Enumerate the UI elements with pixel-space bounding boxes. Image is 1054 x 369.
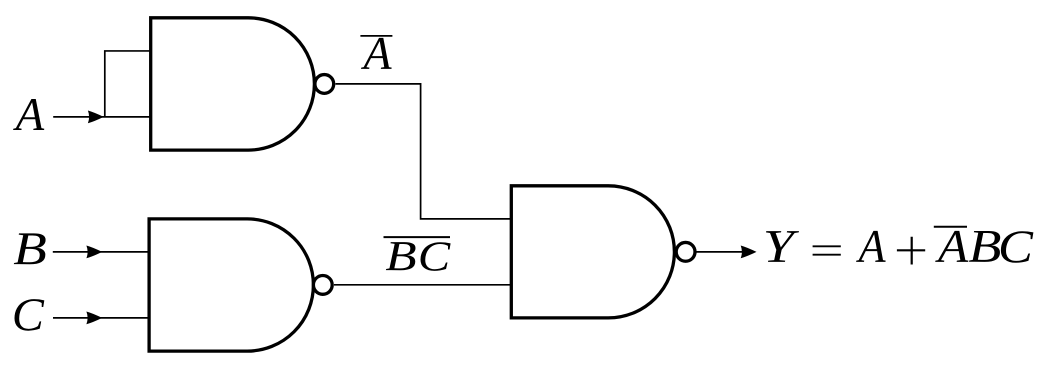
plus sign — [897, 237, 925, 265]
NAND gate U2 (bottom left) — [149, 219, 313, 351]
NAND gate U3 (output) — [511, 186, 674, 318]
arrowhead on B input — [86, 246, 102, 259]
overline of BCbar node — [384, 236, 451, 238]
label B (input) — [14, 233, 46, 264]
overline of Abar in expression — [934, 226, 967, 228]
label Y (output expression) — [766, 231, 799, 262]
wire U1 output to U3 upper input — [336, 84, 512, 219]
label C in expression — [1001, 231, 1033, 263]
NAND gate U1 (inverter, top) — [151, 18, 315, 150]
wire C input — [53, 317, 149, 319]
bubble U2 — [313, 276, 332, 295]
wire A input — [53, 116, 151, 118]
arrowhead on A input — [88, 110, 104, 123]
node BCbar letter B — [386, 242, 416, 270]
arrowhead on C input — [86, 312, 102, 325]
wire Y output — [697, 251, 752, 253]
label A (input) — [13, 99, 44, 130]
arrowhead on Y output — [741, 245, 757, 258]
equals sign — [813, 246, 841, 254]
bubble U1 — [315, 75, 334, 94]
label A in expression — [856, 231, 886, 262]
bubble U3 — [676, 242, 695, 261]
label C (input) — [14, 299, 44, 331]
overline of Abar node — [360, 35, 392, 37]
label Abar A in expression — [935, 231, 968, 262]
wire branch from A to upper input of U1 — [105, 51, 151, 117]
wire U2 output to U3 lower input — [334, 284, 511, 286]
wire B input — [53, 251, 149, 253]
node BCbar letter C — [420, 242, 450, 271]
node Abar label letter — [361, 38, 392, 69]
label B in expression — [969, 231, 1000, 262]
